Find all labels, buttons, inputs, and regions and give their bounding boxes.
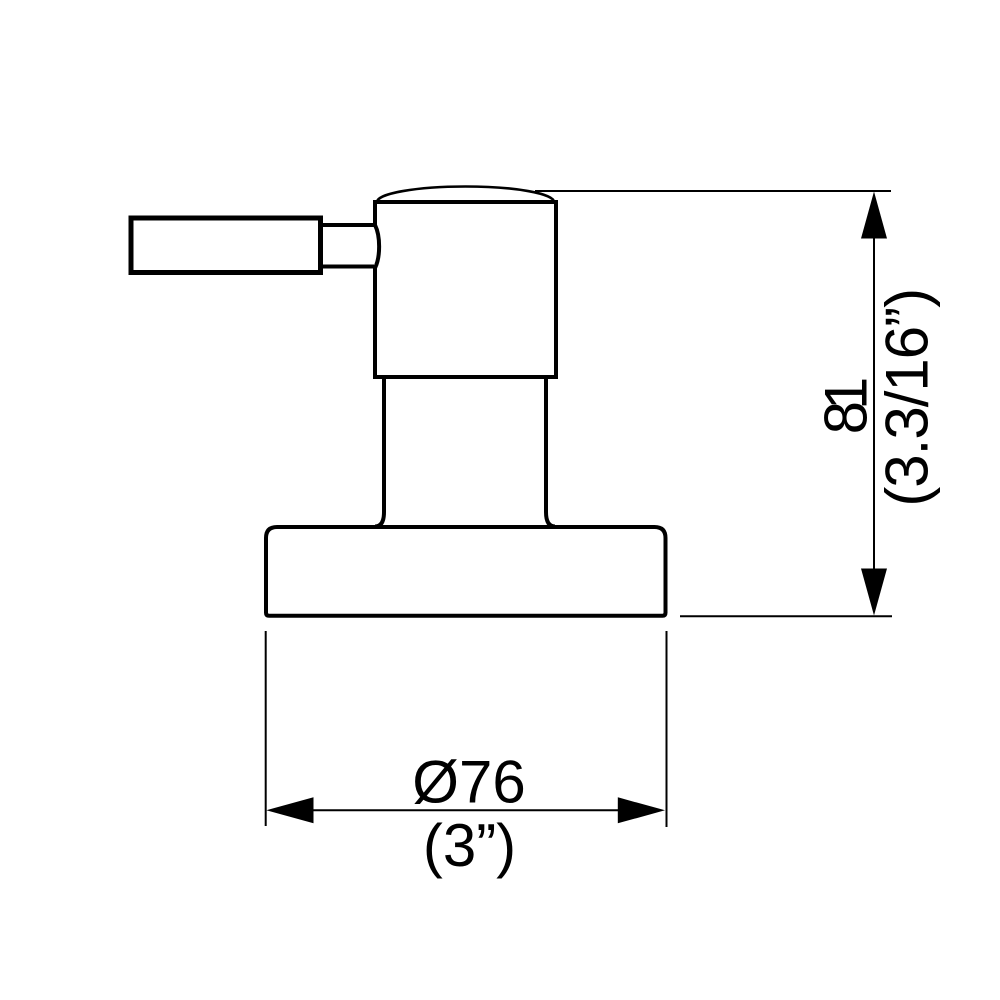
handle stem xyxy=(320,225,374,267)
svg-text:(3”): (3”) xyxy=(423,812,516,879)
bottom extension line xyxy=(680,615,892,617)
neck left edge xyxy=(375,377,384,527)
arrowhead right xyxy=(618,797,665,823)
top extension line xyxy=(535,190,891,192)
left extension line below base xyxy=(265,631,267,826)
escutcheon base xyxy=(266,527,666,616)
valve body outline xyxy=(375,202,556,377)
arrowhead left xyxy=(266,797,313,823)
dome cap on body top xyxy=(377,187,554,203)
arrowhead top xyxy=(861,192,887,239)
horizontal dimension line xyxy=(310,809,621,811)
neck right edge xyxy=(546,377,555,527)
vertical dimension line xyxy=(873,237,875,570)
svg-text:81: 81 xyxy=(813,379,880,434)
right extension line below base xyxy=(666,631,668,827)
arrowhead bottom xyxy=(861,569,887,616)
hub arc at stem joint xyxy=(375,225,379,268)
valve body fill xyxy=(375,202,556,377)
svg-text:Ø76: Ø76 xyxy=(412,749,525,816)
svg-text:(3.3/16”): (3.3/16”) xyxy=(874,289,941,507)
handle lever xyxy=(131,218,321,273)
